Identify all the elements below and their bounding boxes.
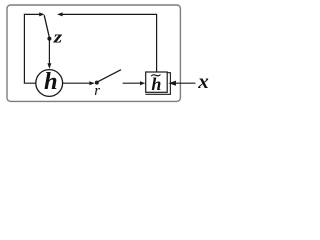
svg-text:r: r [94,83,100,99]
arrowhead into h-tilde box [140,81,145,85]
svg-text:z: z [53,28,63,47]
node h (state circle) [36,70,63,97]
arrowhead into h top [47,63,51,69]
cell boundary (rounded rect) [7,5,180,101]
wire: h-tilde output along top to z switch right terminal [62,14,156,72]
wire: h output loop (circle left, up left side, along top) [24,14,40,83]
wire: x input [176,82,196,84]
z switch pivot dot [47,37,51,41]
h-tilde box shadow outline [145,73,170,95]
arrowhead pointing left at z switch right terminal [57,12,63,16]
arrowhead at r switch [89,81,94,85]
svg-text:h: h [44,68,58,95]
arrowhead of x into h-tilde box [168,81,176,86]
arrowhead into z switch left terminal [39,12,44,16]
svg-text:x: x [197,69,209,93]
wire: z switch down into h [48,40,50,63]
r switch lever [98,70,121,82]
h-tilde box [146,72,168,92]
wire: h to r switch [63,82,90,84]
r switch pivot dot [95,81,99,85]
svg-text:∼: ∼ [150,68,163,84]
wire: r switch to h-tilde box [123,82,141,84]
z switch lever [44,15,49,37]
